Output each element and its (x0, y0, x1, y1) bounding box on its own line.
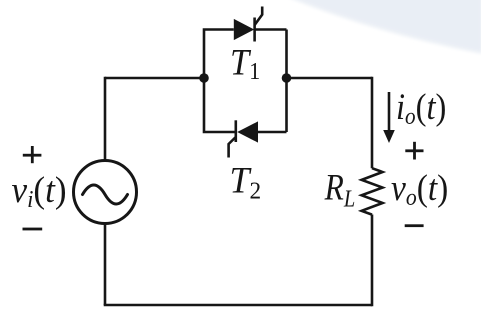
wire: T2 right side to node B (258, 78, 287, 132)
label RL (324, 167, 355, 212)
wire: right vertical below resistor (371, 215, 374, 307)
wire: top-right horizontal node B to right branch (287, 77, 373, 80)
label vi(t) (12, 169, 67, 213)
label plus (source) (23, 146, 42, 163)
wire: T1 right side to node B (255, 30, 287, 79)
wire: T1 left riser (204, 30, 234, 79)
thyristor T1 anode triangle (234, 19, 254, 40)
label T1 (230, 41, 260, 85)
thyristor T1 gate lead (255, 7, 263, 26)
wire: left vertical bottom (source - to bottom rail) (104, 223, 107, 306)
current io(t) arrow (388, 92, 391, 132)
wire: right vertical above resistor (371, 77, 374, 169)
thyristor T1 cathode bar (253, 18, 256, 42)
svg-text:T2: T2 (230, 160, 262, 205)
wire: T2 left riser (204, 78, 236, 132)
node B junction dot (282, 73, 292, 83)
svg-text:T1: T1 (230, 41, 260, 85)
label vo(t) (391, 167, 448, 210)
thyristor T2 gate lead (229, 137, 236, 158)
svg-text:vi(t): vi(t) (12, 169, 67, 213)
thyristor T2 cathode bar (235, 120, 238, 142)
source sine symbol (83, 185, 128, 204)
resistor RL zigzag (362, 168, 383, 214)
label io(t) (396, 86, 446, 129)
svg-text:RL: RL (324, 167, 355, 212)
thyristor T2 anode triangle (237, 121, 258, 142)
svg-text:vo(t): vo(t) (391, 167, 448, 210)
label minus (output) (405, 224, 424, 227)
node A junction dot (199, 73, 209, 83)
wire: bottom rail (104, 304, 372, 307)
label minus (source) (23, 228, 43, 231)
svg-text:io(t): io(t) (396, 86, 446, 129)
source vi(t) circle U1 (74, 161, 137, 224)
wire: top-left horizontal from left branch to node A (105, 77, 204, 80)
wire: left vertical top (node A to source +) (104, 77, 107, 161)
label plus (output) (405, 142, 423, 160)
label T2 (230, 160, 262, 205)
